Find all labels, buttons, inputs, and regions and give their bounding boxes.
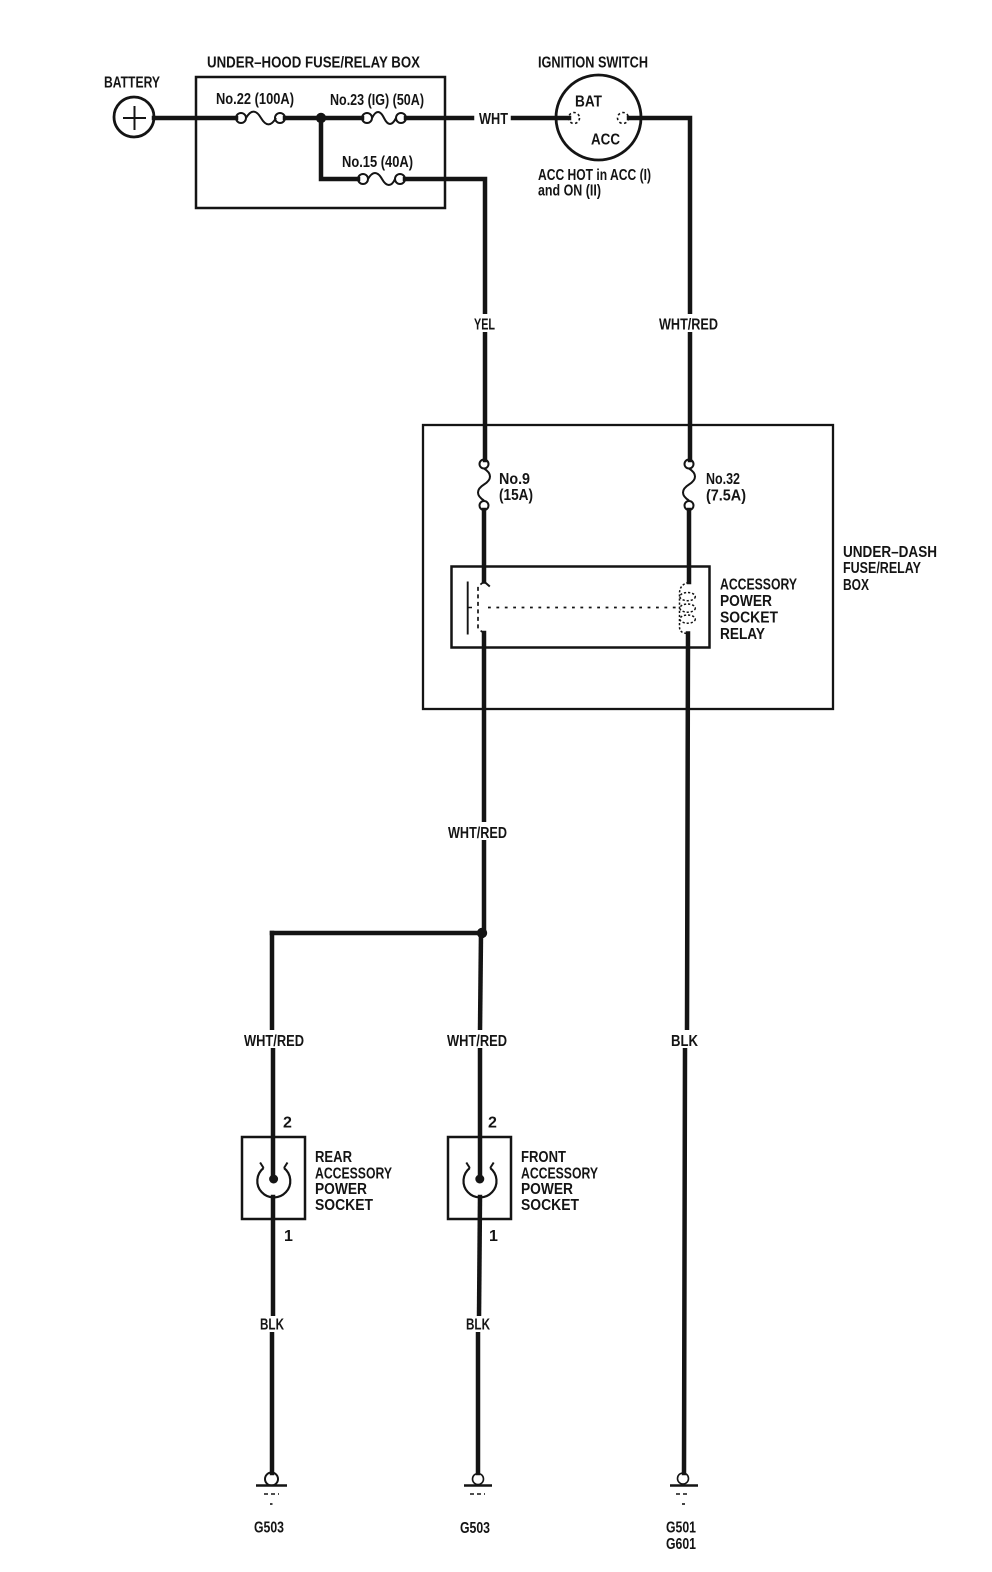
svg-text:1: 1 bbox=[284, 1228, 293, 1245]
wire junction to fuse No.23 bbox=[321, 116, 362, 121]
svg-text:2: 2 bbox=[488, 1115, 497, 1132]
fuse No.23 bbox=[362, 112, 406, 124]
svg-text:G503: G503 bbox=[254, 1520, 284, 1537]
ground G503 rear bbox=[256, 1473, 287, 1505]
node junction at fuse box bbox=[316, 113, 326, 123]
under-dash fuse/relay box bbox=[423, 425, 833, 709]
svg-text:POWER: POWER bbox=[315, 1181, 367, 1198]
svg-text:ACCESSORY: ACCESSORY bbox=[720, 577, 797, 594]
svg-text:BAT: BAT bbox=[575, 94, 602, 111]
relay contact bar tick bbox=[468, 607, 472, 609]
front accessory power socket bbox=[448, 1137, 511, 1219]
wire label WHT/RED bbox=[656, 314, 720, 334]
svg-text:YEL: YEL bbox=[474, 317, 495, 334]
wire label BLK front bbox=[463, 1316, 493, 1334]
wire YEL vertical below label to fuse No.9 bbox=[483, 332, 488, 460]
wire junction branch horizontal bbox=[272, 931, 484, 936]
wire fuse No.9 to relay contact bbox=[482, 510, 487, 582]
svg-text:ACCESSORY: ACCESSORY bbox=[315, 1166, 392, 1183]
svg-text:REAR: REAR bbox=[315, 1149, 352, 1166]
relay movable contact dashed bbox=[478, 582, 484, 633]
wire fuse No.32 to relay coil bbox=[687, 510, 692, 582]
svg-text:WHT/RED: WHT/RED bbox=[659, 317, 718, 334]
svg-text:ACC HOT in ACC (I): ACC HOT in ACC (I) bbox=[538, 167, 651, 184]
wire relay coil down to ground G501 bbox=[687, 634, 688, 1032]
accessory power socket relay box bbox=[452, 567, 710, 648]
wire rear socket to ground G503 bbox=[271, 1197, 276, 1317]
relay contact tip tick bbox=[484, 581, 490, 587]
svg-text:UNDER–DASH: UNDER–DASH bbox=[843, 544, 937, 561]
svg-text:2: 2 bbox=[283, 1115, 292, 1132]
wire WHT/RED vertical below label to fuse No.32 bbox=[688, 332, 693, 460]
svg-text:WHT/RED: WHT/RED bbox=[447, 1033, 507, 1050]
svg-text:IGNITION SWITCH: IGNITION SWITCH bbox=[538, 55, 648, 72]
svg-text:WHT/RED: WHT/RED bbox=[244, 1033, 304, 1050]
relay contact bar bbox=[467, 582, 469, 635]
wire label WHT/RED front socket bbox=[444, 1030, 508, 1050]
svg-text:FRONT: FRONT bbox=[521, 1149, 566, 1166]
svg-text:BATTERY: BATTERY bbox=[104, 75, 160, 92]
svg-text:No.9: No.9 bbox=[499, 471, 530, 488]
wire label WHT/RED below box bbox=[445, 822, 509, 842]
svg-text:G601: G601 bbox=[666, 1536, 696, 1553]
svg-text:and ON (II): and ON (II) bbox=[538, 183, 601, 200]
svg-text:UNDER–HOOD FUSE/RELAY BOX: UNDER–HOOD FUSE/RELAY BOX bbox=[207, 55, 420, 72]
svg-text:SOCKET: SOCKET bbox=[720, 610, 778, 627]
wire WHT fuse No.23 to ignition switch bbox=[406, 116, 472, 121]
fuse No.9 bbox=[478, 460, 490, 511]
svg-text:POWER: POWER bbox=[720, 593, 772, 610]
wire branch junction down to fuse No.15 bbox=[321, 118, 358, 179]
svg-text:No.22 (100A): No.22 (100A) bbox=[216, 91, 294, 108]
svg-text:BLK: BLK bbox=[671, 1033, 698, 1050]
ground G503 front bbox=[464, 1474, 492, 1495]
node junction lower bbox=[477, 928, 487, 938]
relay dashed link to coil bbox=[488, 607, 679, 609]
wire fuse No.22 to junction bbox=[285, 116, 321, 121]
svg-text:G501: G501 bbox=[666, 1520, 696, 1537]
wire label BLK right bbox=[666, 1030, 702, 1050]
svg-text:POWER: POWER bbox=[521, 1181, 573, 1198]
svg-text:BLK: BLK bbox=[466, 1317, 490, 1334]
svg-text:SOCKET: SOCKET bbox=[521, 1197, 579, 1214]
rear accessory power socket bbox=[242, 1137, 305, 1219]
relay coil bbox=[680, 583, 696, 634]
wire label WHT/RED left branch bbox=[241, 1030, 305, 1050]
wire front socket to ground G503 bbox=[479, 1197, 480, 1317]
svg-text:No.23 (IG) (50A): No.23 (IG) (50A) bbox=[330, 92, 424, 109]
svg-text:FUSE/RELAY: FUSE/RELAY bbox=[843, 560, 921, 577]
svg-text:WHT/RED: WHT/RED bbox=[448, 825, 507, 842]
wire left branch down to rear socket bbox=[270, 933, 275, 1031]
ignition switch bbox=[556, 75, 641, 160]
fuse No.32 bbox=[683, 460, 695, 511]
under-hood fuse/relay box bbox=[196, 77, 445, 208]
svg-text:WHT: WHT bbox=[479, 111, 508, 128]
wire label YEL bbox=[470, 314, 500, 334]
svg-text:(7.5A): (7.5A) bbox=[706, 488, 746, 505]
svg-text:ACC: ACC bbox=[591, 132, 620, 149]
svg-text:(15A): (15A) bbox=[499, 487, 533, 504]
svg-text:No.32: No.32 bbox=[706, 471, 740, 488]
svg-text:SOCKET: SOCKET bbox=[315, 1197, 373, 1214]
battery bbox=[114, 97, 154, 137]
ground G501/G601 bbox=[670, 1473, 698, 1504]
fuse No.22 bbox=[236, 112, 285, 125]
fuse No.15 bbox=[358, 173, 405, 185]
svg-text:RELAY: RELAY bbox=[720, 626, 765, 643]
wire relay contact down to junction below bbox=[482, 633, 487, 824]
svg-text:G503: G503 bbox=[460, 1520, 490, 1537]
svg-text:No.15 (40A): No.15 (40A) bbox=[342, 154, 413, 171]
svg-text:ACCESSORY: ACCESSORY bbox=[521, 1166, 598, 1183]
wire fuse No.15 to YEL vertical bbox=[405, 179, 485, 315]
svg-text:BLK: BLK bbox=[260, 1317, 284, 1334]
wire front socket vertical bbox=[480, 933, 481, 1031]
wire label BLK rear bbox=[258, 1316, 288, 1334]
svg-text:BOX: BOX bbox=[843, 577, 869, 594]
svg-text:1: 1 bbox=[489, 1228, 498, 1245]
wire ignition switch to WHT/RED vertical bbox=[629, 118, 690, 316]
wire battery to fuse No.22 bbox=[154, 116, 236, 121]
